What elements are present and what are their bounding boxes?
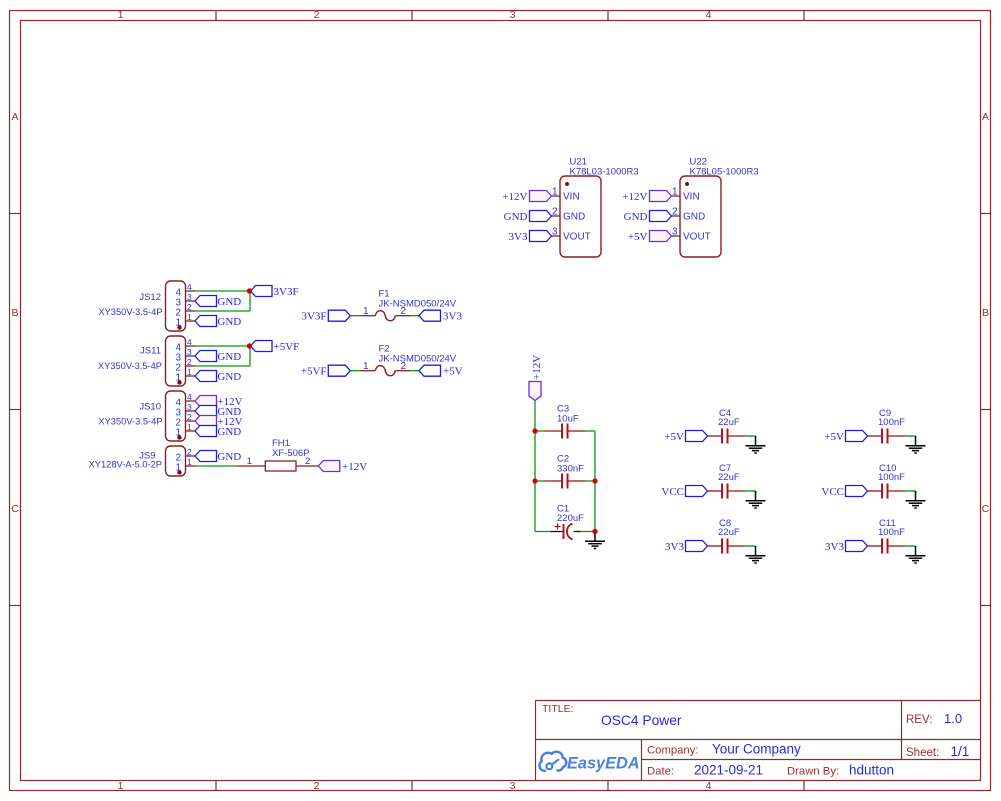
row ticks right [981, 214, 991, 606]
svg-text:1: 1 [247, 456, 252, 467]
wire F2 to +5V [410, 370, 419, 372]
junction JS11/+5VF [247, 343, 252, 348]
wire +12V rail (left) [534, 401, 536, 532]
svg-text:3V3F: 3V3F [301, 311, 326, 323]
svg-text:REV:: REV: [906, 714, 932, 726]
wire C4 to ground [746, 435, 756, 437]
net flag +5V (C9) [824, 431, 867, 444]
connector JS9 [89, 446, 196, 476]
company value [712, 742, 801, 757]
regulator U21 [552, 157, 639, 258]
svg-text:22uF: 22uF [718, 417, 740, 428]
wire C9 to ground [906, 435, 916, 437]
svg-text:VIN: VIN [563, 192, 580, 203]
svg-text:4: 4 [706, 780, 712, 792]
ground (C4) [755, 435, 757, 438]
wire C7 to ground [746, 490, 756, 492]
svg-text:XY350V-3.5-4P: XY350V-3.5-4P [98, 307, 162, 317]
wire ground rail (right) [594, 431, 596, 532]
svg-text:Date:: Date: [647, 766, 674, 778]
ground (C8) [755, 545, 757, 548]
drawn-by label [787, 766, 839, 778]
column numbers bottom [118, 780, 712, 792]
svg-text:Sheet:: Sheet: [906, 747, 939, 759]
net flag +12V (JS10 pin 4) [195, 396, 243, 409]
svg-text:JK-NSMD050/24V: JK-NSMD050/24V [379, 354, 457, 365]
svg-text:+5V: +5V [664, 431, 684, 443]
wire JS12 pin4 to 3V3F [196, 290, 251, 292]
svg-text:1: 1 [552, 187, 558, 198]
capacitor C2 330nF [545, 454, 586, 489]
svg-text:2: 2 [401, 306, 407, 317]
svg-text:GND: GND [504, 211, 528, 223]
svg-text:330nF: 330nF [557, 464, 584, 475]
svg-text:3V3F: 3V3F [274, 286, 299, 298]
row ticks left [10, 214, 21, 606]
svg-text:1: 1 [118, 780, 124, 792]
svg-text:XF-506P: XF-506P [272, 448, 310, 459]
net flag +12V (FH1) [318, 461, 367, 474]
svg-text:1.0: 1.0 [944, 711, 962, 726]
net flag GND (JS10 pin 1) [195, 426, 241, 439]
net flag VCC (C7) [661, 486, 707, 499]
svg-text:hdutton: hdutton [849, 763, 894, 778]
net flag 3V3 (C8) [665, 541, 707, 554]
column numbers top [118, 9, 712, 21]
svg-text:JS12: JS12 [139, 292, 161, 303]
svg-text:1: 1 [672, 187, 678, 198]
svg-text:XY350V-3.5-4P: XY350V-3.5-4P [98, 361, 162, 371]
junction +12V/C2 [532, 478, 537, 483]
svg-text:100nF: 100nF [878, 472, 905, 483]
connector JS10 [98, 391, 195, 441]
svg-text:Company:: Company: [647, 745, 699, 757]
net flag +5V (U22 pin 3) [628, 231, 672, 244]
rev value [944, 711, 962, 726]
svg-text:3V3: 3V3 [665, 541, 684, 553]
capacitor C9 100nF [868, 408, 906, 444]
wire C2 right [586, 480, 596, 482]
svg-text:GND: GND [217, 371, 241, 383]
capacitor C3 10uF [545, 404, 586, 439]
wire C1 right [581, 531, 596, 533]
svg-text:Your Company: Your Company [712, 742, 801, 757]
company label [647, 745, 699, 757]
wire JS12 pin2 to 3V3F [196, 291, 251, 311]
svg-text:1/1: 1/1 [951, 744, 970, 759]
fuse F1 [361, 289, 457, 321]
column ticks top [216, 11, 804, 21]
svg-text:VIN: VIN [683, 192, 700, 203]
net flag GND (U21 pin 2) [504, 211, 552, 224]
svg-text:GND: GND [217, 351, 241, 363]
net flag 3V3F (F1 in) [301, 310, 350, 323]
svg-text:JS11: JS11 [140, 346, 161, 357]
svg-text:2: 2 [672, 207, 678, 218]
svg-text:+5V: +5V [824, 431, 844, 443]
net flag +12V (U22 pin 1) [622, 191, 671, 204]
wire C8 to ground [746, 545, 756, 547]
svg-text:3: 3 [510, 9, 516, 21]
fuse F2 [361, 344, 457, 376]
net flag 3V3 (C11) [825, 541, 867, 554]
svg-text:100nF: 100nF [878, 527, 905, 538]
svg-text:+5VF: +5VF [274, 341, 300, 353]
title block frame [536, 701, 981, 781]
net flag GND (U22 pin 2) [624, 211, 672, 224]
svg-text:2: 2 [314, 780, 320, 792]
net flag GND (JS10 pin 3) [195, 406, 241, 419]
sheet value [951, 744, 970, 759]
svg-text:1: 1 [363, 361, 369, 372]
svg-text:EasyEDA: EasyEDA [567, 755, 640, 773]
wire JS11 pin2 to +5VF [196, 346, 251, 366]
net flag GND (JS12 pin1) [195, 316, 241, 329]
connector JS11 [98, 336, 196, 386]
svg-text:GND: GND [683, 212, 705, 223]
svg-text:A: A [11, 111, 18, 123]
ground (bulk) [585, 532, 605, 549]
svg-text:220uF: 220uF [557, 513, 584, 524]
net flag 3V3F (JS12) [251, 286, 299, 299]
drawn-by value [849, 763, 894, 778]
net flag 3V3 (F1 out) [419, 310, 462, 323]
date value [694, 763, 763, 778]
wire JS11 pin4 to +5VF [196, 345, 251, 347]
svg-text:GND: GND [217, 426, 241, 438]
svg-text:+12V: +12V [342, 461, 367, 473]
svg-text:TITLE:: TITLE: [542, 703, 574, 715]
svg-text:GND: GND [217, 451, 241, 463]
connector JS12 [98, 281, 195, 331]
wire C1 left [535, 531, 551, 533]
svg-text:3: 3 [672, 227, 678, 238]
svg-text:2: 2 [401, 361, 407, 372]
ground (C11) [915, 545, 917, 548]
junction JS12/3V3F [247, 288, 252, 293]
rev label [906, 714, 932, 726]
wire JS9 pin1 to FH1 [196, 465, 239, 467]
svg-text:GND: GND [563, 212, 585, 223]
svg-text:JS10: JS10 [139, 402, 161, 413]
title label [542, 703, 574, 715]
capacitor C1 220uF (polarized) [551, 504, 585, 540]
svg-text:1: 1 [118, 9, 124, 21]
capacitor C11 100nF [868, 518, 906, 554]
net flag GND (JS11 pin3) [195, 351, 241, 364]
svg-text:XY128V-A-5.0-2P: XY128V-A-5.0-2P [89, 460, 162, 470]
net flag VCC (C10) [821, 486, 867, 499]
wire C3 right [586, 430, 596, 432]
wire +5VF to F2 [350, 370, 360, 372]
fuse holder FH1 [238, 438, 318, 471]
svg-text:2: 2 [305, 456, 310, 467]
svg-text:10uF: 10uF [557, 414, 579, 425]
svg-text:3: 3 [510, 780, 516, 792]
junction GND/C2 [592, 478, 597, 483]
svg-text:OSC4 Power: OSC4 Power [601, 713, 682, 728]
svg-text:22uF: 22uF [718, 527, 740, 538]
svg-text:VCC: VCC [821, 486, 844, 498]
net flag +12V (JS10 pin 2) [195, 416, 243, 429]
svg-text:+12V: +12V [622, 191, 647, 203]
capacitor C8 22uF [708, 518, 746, 554]
capacitor C10 100nF [868, 463, 906, 499]
wire C3 left [535, 430, 545, 432]
ground (C10) [915, 490, 917, 493]
svg-text:+5V: +5V [628, 231, 648, 243]
svg-text:3V3: 3V3 [509, 231, 528, 243]
svg-text:A: A [982, 111, 989, 123]
svg-text:2: 2 [552, 207, 558, 218]
wire C10 to ground [906, 490, 916, 492]
svg-text:3V3: 3V3 [825, 541, 844, 553]
wire C11 to ground [906, 545, 916, 547]
svg-text:B: B [11, 307, 18, 319]
wire 3V3F to F1 [350, 315, 360, 317]
column ticks bottom [216, 781, 804, 791]
net flag GND (JS11 pin1) [195, 371, 241, 384]
EasyEDA logo [540, 752, 640, 773]
svg-text:22uF: 22uF [718, 472, 740, 483]
ground (C9) [915, 435, 917, 438]
net flag 3V3 (U21 pin 3) [509, 231, 552, 244]
svg-text:+12V: +12V [531, 355, 543, 380]
capacitor C4 22uF [708, 408, 746, 444]
svg-text:B: B [982, 307, 989, 319]
net flag +5VF (F2 in) [301, 365, 351, 378]
svg-text:GND: GND [217, 316, 241, 328]
wire C2 left [535, 480, 545, 482]
net flag +5VF (JS11) [251, 341, 300, 354]
svg-text:+12V: +12V [502, 191, 527, 203]
svg-text:GND: GND [624, 211, 648, 223]
svg-text:VOUT: VOUT [683, 232, 711, 243]
svg-text:2021-09-21: 2021-09-21 [694, 763, 763, 778]
svg-text:Drawn By:: Drawn By: [787, 766, 839, 778]
row letters left [11, 111, 19, 515]
svg-text:C: C [11, 503, 19, 515]
svg-text:2: 2 [314, 9, 320, 21]
net flag GND (JS9 pin2) [195, 451, 241, 464]
date label [647, 766, 674, 778]
row letters right [982, 111, 990, 515]
junction +12V/C3 [532, 428, 537, 433]
sheet label [906, 747, 939, 759]
svg-text:XY350V-3.5-4P: XY350V-3.5-4P [98, 417, 162, 427]
svg-text:+5VF: +5VF [301, 366, 327, 378]
svg-text:JK-NSMD050/24V: JK-NSMD050/24V [379, 299, 457, 310]
net flag GND (JS12 pin3) [195, 296, 241, 309]
net flag +5V (C4) [664, 431, 707, 444]
svg-text:3V3: 3V3 [443, 311, 462, 323]
svg-text:4: 4 [706, 9, 712, 21]
net flag +5V (F2 out) [419, 365, 463, 378]
svg-text:VCC: VCC [661, 486, 684, 498]
net flag +12V (bulk rail) [529, 355, 543, 401]
regulator U22 [672, 157, 759, 258]
svg-text:+5V: +5V [443, 366, 463, 378]
junction GND/C1 [592, 529, 597, 534]
ground (C7) [755, 490, 757, 493]
svg-text:1: 1 [363, 306, 369, 317]
svg-text:100nF: 100nF [878, 417, 905, 428]
net flag +12V (U21 pin 1) [502, 191, 551, 204]
svg-text:3: 3 [552, 227, 558, 238]
svg-text:VOUT: VOUT [563, 232, 591, 243]
svg-text:C: C [982, 503, 990, 515]
wire F1 to 3V3 [410, 315, 419, 317]
sheet title [601, 713, 682, 728]
capacitor C7 22uF [708, 463, 746, 499]
svg-text:GND: GND [217, 296, 241, 308]
